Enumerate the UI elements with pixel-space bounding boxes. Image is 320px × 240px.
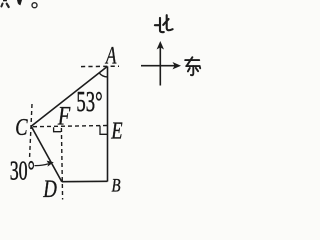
wire A-B (vertical solid) [107,66,109,181]
svg-text:D: D [42,174,56,200]
cropped ideographic full stop [32,3,37,8]
cropped text fragment right dot [7,4,9,7]
svg-text:30°: 30° [10,156,35,187]
compass east arrowhead [173,62,182,69]
angle arc 30 with arrow at C line [35,164,49,166]
dashed east-west line through A [81,65,119,67]
compass east arrow shaft [141,65,176,67]
label 北 (north) [155,15,173,32]
svg-text:B: B [112,175,122,196]
dashed line F-D extended below D [61,128,62,200]
right-angle mark at E [100,126,107,135]
cropped text fragment blob [17,0,22,5]
wire C-D (slanted solid) [31,126,62,182]
cropped text fragment left dot [1,4,2,7]
compass north arrowhead [157,41,164,50]
arrowhead of 30 arc [47,161,54,167]
svg-text:E: E [110,117,122,144]
cropped text fragment top bar (top-left) [3,0,7,1]
svg-text:C: C [15,114,28,141]
svg-text:53°: 53° [76,86,102,118]
dashed line C-E [33,126,108,127]
wire D-B (bottom solid) [62,180,108,182]
svg-text:A: A [104,41,117,69]
svg-text:F: F [57,102,71,131]
right-angle mark at F [54,127,61,132]
dashed north-south line through C [30,104,32,157]
label 东 (east) [185,57,200,75]
angle arc 53 at A [99,73,107,77]
compass north arrow shaft [159,47,161,86]
wire A-C (slanted solid) [31,66,107,126]
